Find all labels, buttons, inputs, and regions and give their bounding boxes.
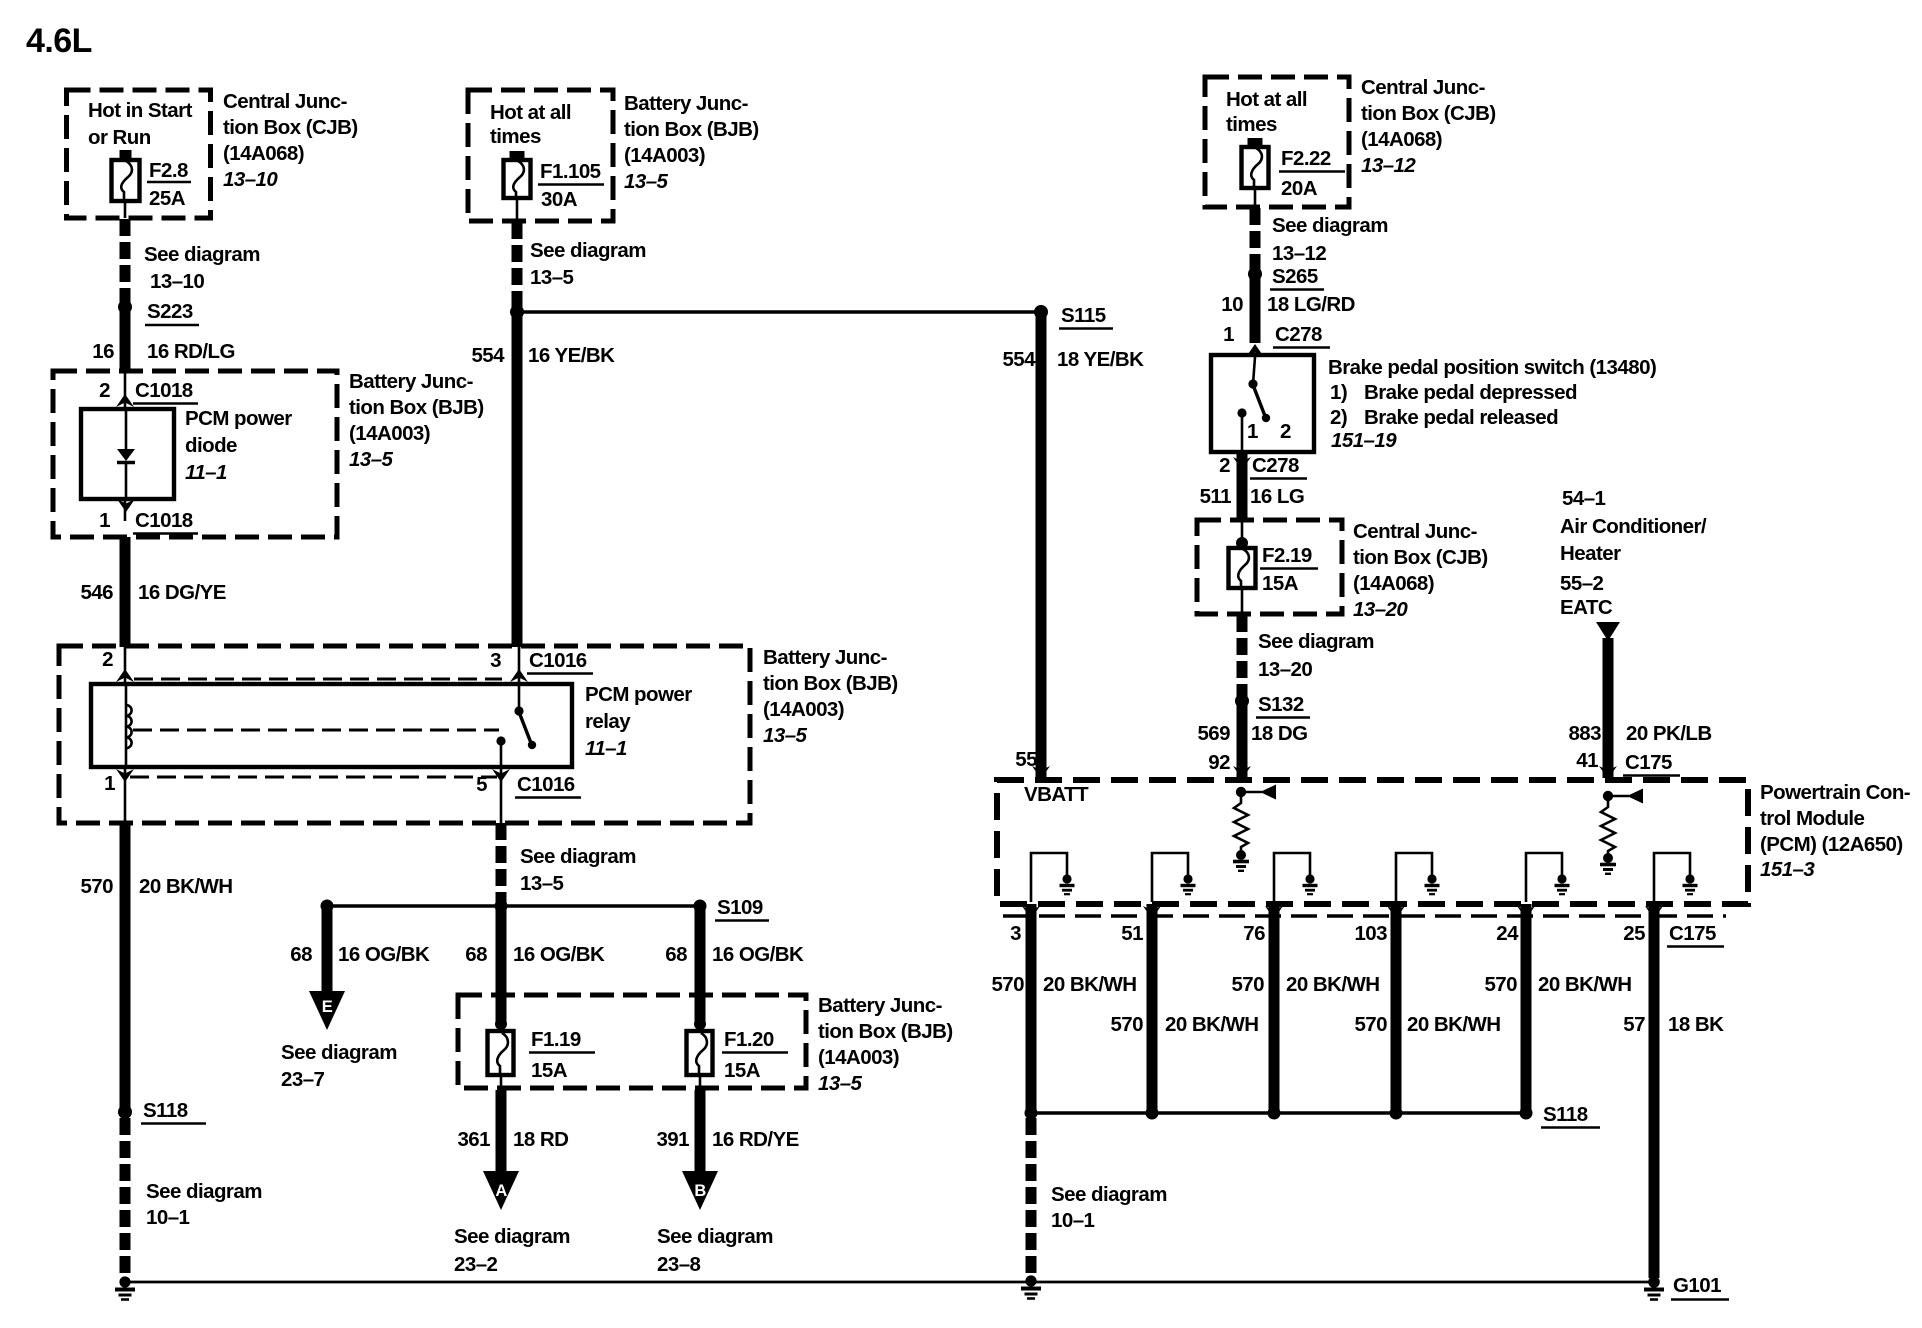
svg-text:15A: 15A [724,1059,761,1082]
svg-text:554: 554 [471,344,505,367]
pin 1 C278 [1223,323,1330,357]
wire 391 16 RD/YE [656,1090,798,1173]
internal load at pin 92 (arrow + resistor to ground) [1234,785,1276,852]
fuse F2.22 20A [1242,138,1346,207]
svg-text:S265: S265 [1272,265,1318,288]
svg-text:(14A068): (14A068) [223,142,304,165]
splice S118 (left) [118,1099,206,1124]
svg-text:2: 2 [99,379,110,402]
label Powertrain Control Module (PCM) [1760,781,1910,881]
svg-text:G101: G101 [1673,1274,1721,1297]
label Battery Junction Box (BJB) 13-5 [349,370,484,471]
BJB dashed box (Hot at all times) [468,90,613,221]
svg-text:(14A003): (14A003) [818,1046,899,1069]
pin 41 C175 [1576,749,1680,776]
svg-text:diode: diode [185,434,237,457]
internal ground (pin 41 load) [1600,853,1616,874]
ground bus wire [125,1281,1650,1284]
svg-text:24: 24 [1496,922,1519,945]
wire 570 20 BK/WH (pin 24) [1484,904,1631,1113]
svg-text:See diagram: See diagram [530,239,646,262]
svg-text:18 LG/RD: 18 LG/RD [1267,293,1355,316]
wire 68 16 OG/BK (left branch) [290,906,430,993]
wire 57 18 BK (pin 25) [1623,904,1724,1278]
BJB dashed box (PCM power diode) [53,371,337,537]
svg-text:20 BK/WH: 20 BK/WH [139,875,233,898]
svg-text:(14A003): (14A003) [763,698,844,721]
brake pedal position switch box [1211,355,1314,452]
svg-text:92: 92 [1208,751,1230,774]
svg-text:F2.8: F2.8 [149,159,188,182]
svg-text:23–8: 23–8 [657,1253,701,1276]
svg-text:B: B [694,1182,706,1200]
label Battery Junction Box (BJB) 13-5 (fuse box) [818,994,953,1095]
svg-text:511: 511 [1200,485,1232,508]
wire 554 16 YE/BK [471,312,615,647]
svg-text:Battery Junc-: Battery Junc- [624,92,748,115]
svg-text:20 BK/WH: 20 BK/WH [1165,1013,1259,1036]
svg-text:or Run: or Run [88,126,151,149]
PCM dashed box [997,780,1748,904]
svg-text:See diagram: See diagram [1258,630,1374,653]
internal ground jumper pin 103 [1396,853,1440,902]
ground G101 [1644,1274,1729,1300]
svg-text:C278: C278 [1275,323,1322,346]
svg-text:57: 57 [1623,1013,1645,1036]
svg-text:23–7: 23–7 [281,1068,325,1091]
switch contacts [1237,357,1291,452]
svg-text:tion Box (CJB): tion Box (CJB) [1353,546,1488,569]
svg-text:C278: C278 [1252,454,1299,477]
svg-text:F1.20: F1.20 [724,1028,774,1051]
svg-text:16 OG/BK: 16 OG/BK [513,943,605,966]
splice S118 bus [1025,1103,1601,1128]
pin 3 [1010,906,1040,945]
svg-text:76: 76 [1243,922,1265,945]
svg-text:S118: S118 [143,1099,188,1122]
svg-text:PCM power: PCM power [185,407,292,430]
svg-text:Brake pedal released: Brake pedal released [1364,406,1558,429]
internal ground jumper pin 76 [1274,853,1318,902]
svg-text:51: 51 [1121,922,1143,945]
splice S265 [1248,265,1324,290]
svg-text:11–1: 11–1 [585,737,627,760]
see diagram 10-1 note (left) [146,1180,262,1229]
wire (dashed) from F2.19 to S132 [1237,615,1248,697]
svg-text:361: 361 [457,1128,490,1151]
svg-text:25A: 25A [149,187,186,210]
wire 570 20 BK/WH (pin 51) [1110,904,1258,1113]
wire 16 RD/LG [92,307,235,372]
pin 2 C278 [1219,454,1307,479]
svg-text:Central Junc-: Central Junc- [1353,520,1477,543]
wire 883 20 PK/LB (from EATC to PCM pin 41) [1568,622,1711,779]
off-page arrow B [682,1171,718,1210]
svg-text:20 PK/LB: 20 PK/LB [1626,722,1712,745]
svg-text:570: 570 [1484,973,1517,996]
label Central Junction Box (CJB) 13-20 [1353,520,1488,621]
svg-text:tion Box (BJB): tion Box (BJB) [818,1020,953,1043]
svg-text:68: 68 [465,943,487,966]
label Battery Junction Box (BJB) 13-5 [624,92,759,193]
svg-text:Powertrain Con-: Powertrain Con- [1760,781,1910,804]
pin 76 [1243,906,1283,945]
svg-text:2: 2 [1219,454,1230,477]
label Central Junction Box (CJB) [223,90,358,191]
svg-text:(14A003): (14A003) [349,422,430,445]
svg-text:55–2: 55–2 [1560,572,1604,595]
svg-text:F1.19: F1.19 [531,1028,581,1051]
wire 569 18 DG (to PCM pin 92) [1197,701,1307,779]
svg-text:2: 2 [1280,420,1291,443]
svg-text:S132: S132 [1258,693,1304,716]
splice S223 [118,300,199,325]
svg-text:relay: relay [585,710,631,733]
wire 546 16 DG/YE [80,537,225,647]
svg-text:See diagram: See diagram [146,1180,262,1203]
wire (dashed) to ground G [120,1118,131,1277]
svg-text:391: 391 [656,1128,689,1151]
svg-text:25: 25 [1623,922,1645,945]
internal ground jumper pin 3 [1031,853,1075,902]
svg-text:16 YE/BK: 16 YE/BK [528,344,615,367]
relay actuation dashed line [133,729,499,732]
CJB dashed box (F2.19) [1197,520,1342,614]
svg-text:C175: C175 [1669,922,1716,945]
svg-text:3: 3 [490,649,501,672]
pin 3 C1016 [490,646,593,711]
pin 24 [1496,906,1535,945]
fuse F1.19 15A [488,1018,596,1090]
svg-text:tion Box (BJB): tion Box (BJB) [624,118,759,141]
svg-text:10–1: 10–1 [146,1206,190,1229]
internal ground jumper pin 24 [1526,853,1570,902]
svg-text:41: 41 [1576,749,1598,772]
connector C175 dashed line (bottom of PCM) [1003,914,1726,917]
svg-text:2): 2) [1330,406,1347,429]
svg-text:15A: 15A [1262,572,1299,595]
svg-text:13–5: 13–5 [520,872,564,895]
svg-text:2: 2 [102,648,113,671]
svg-text:See diagram: See diagram [1272,214,1388,237]
svg-text:Battery Junc-: Battery Junc- [763,646,887,669]
svg-text:103: 103 [1354,922,1387,945]
svg-text:570: 570 [991,973,1024,996]
svg-text:1: 1 [104,772,115,795]
PCM power diode D1 [81,407,292,499]
wire (dashed) from F1.105 down [512,222,523,308]
svg-text:13–20: 13–20 [1353,598,1408,621]
wire to S115 [517,310,1041,313]
svg-text:570: 570 [1110,1013,1143,1036]
svg-text:See diagram: See diagram [1051,1183,1167,1206]
svg-text:See diagram: See diagram [144,243,260,266]
pin 25 C175 [1623,906,1724,947]
splice S115 [1034,304,1113,329]
svg-text:F1.105: F1.105 [540,160,601,183]
svg-text:13–5: 13–5 [624,170,669,193]
off-page arrow A [483,1171,519,1210]
svg-text:20 BK/WH: 20 BK/WH [1286,973,1380,996]
see diagram 13-5 note [520,845,636,895]
svg-text:tion Box (BJB): tion Box (BJB) [349,396,484,419]
svg-text:1: 1 [99,509,110,532]
label Brake pedal position switch (13480) [1328,356,1656,452]
svg-text:68: 68 [665,943,687,966]
CJB dashed box (Hot at all times) [1205,77,1349,207]
wire 570 20 BK/WH (pin 76) [1231,904,1379,1113]
svg-text:570: 570 [1354,1013,1387,1036]
ground symbol (left) [115,1276,135,1299]
svg-text:13–5: 13–5 [818,1072,863,1095]
relay switch contacts [496,706,536,823]
svg-text:20A: 20A [1281,177,1318,200]
label 55-2 EATC [1560,572,1613,619]
svg-text:F2.22: F2.22 [1281,147,1331,170]
internal ground jumper pin 51 [1152,853,1196,902]
svg-text:16 OG/BK: 16 OG/BK [712,943,804,966]
wire 570 20 BK/WH (pin 103) [1354,904,1500,1113]
svg-text:times: times [1226,113,1277,136]
BJB dashed box (PCM power relay) [59,646,750,823]
svg-text:554: 554 [1002,348,1036,371]
svg-text:(14A068): (14A068) [1353,572,1434,595]
svg-text:13–5: 13–5 [349,448,394,471]
svg-text:10: 10 [1221,293,1243,316]
wire 511 16 LG [1200,453,1305,521]
svg-text:times: times [490,125,541,148]
svg-text:See diagram: See diagram [520,845,636,868]
svg-text:(PCM) (12A650): (PCM) (12A650) [1760,833,1903,856]
svg-text:16 DG/YE: 16 DG/YE [138,581,226,604]
svg-text:13–10: 13–10 [150,270,204,293]
label PCM power relay 11-1 [585,683,692,760]
relay coil [126,684,132,767]
svg-text:S115: S115 [1061,304,1106,327]
svg-text:1): 1) [1330,381,1347,404]
wire 68 16 OG/BK (middle branch) [465,906,605,1024]
svg-text:Central Junc-: Central Junc- [1361,76,1485,99]
pin 2 of relay [102,646,134,684]
pin 2 C1018 [99,371,198,409]
svg-text:(14A003): (14A003) [624,144,705,167]
svg-text:Brake pedal position switch (1: Brake pedal position switch (13480) [1328,356,1656,379]
svg-text:trol Module: trol Module [1760,807,1865,830]
svg-text:16 RD/YE: 16 RD/YE [712,1128,799,1151]
internal ground jumper pin 25 [1654,853,1698,902]
svg-text:16: 16 [92,340,114,363]
PCM power relay box [91,684,572,767]
svg-text:13–12: 13–12 [1272,242,1326,265]
see diagram 23-7 note [281,1041,397,1091]
fuse F1.20 15A [687,1018,789,1090]
svg-text:C1016: C1016 [529,649,587,672]
svg-text:18 YE/BK: 18 YE/BK [1057,348,1144,371]
svg-text:Central Junc-: Central Junc- [223,90,347,113]
svg-text:13–12: 13–12 [1361,154,1416,177]
svg-text:16 LG: 16 LG [1250,485,1304,508]
svg-text:Air Conditioner/: Air Conditioner/ [1560,515,1707,538]
svg-text:151–19: 151–19 [1331,429,1397,452]
pin 103 [1354,906,1405,945]
svg-text:E: E [322,998,333,1016]
svg-text:1: 1 [1247,420,1258,443]
svg-text:S109: S109 [717,896,763,919]
CJB dashed box (Hot in Start or Run) [67,90,211,218]
svg-text:151–3: 151–3 [1760,858,1815,881]
svg-text:569: 569 [1197,722,1230,745]
see diagram 23-2 note [454,1225,570,1276]
connector C1016 dashed line (bottom) [130,776,497,779]
svg-text:Battery Junc-: Battery Junc- [818,994,942,1017]
svg-text:18 BK: 18 BK [1668,1013,1724,1036]
wire (dashed) from relay pin 5 to S109 [496,823,507,903]
svg-text:11–1: 11–1 [185,461,227,484]
splice S109 bus [321,896,770,921]
svg-text:Hot in Start: Hot in Start [88,99,193,122]
svg-text:EATC: EATC [1560,596,1613,619]
see diagram 10-1 note (PCM) [1051,1183,1167,1232]
svg-text:18 DG: 18 DG [1251,722,1308,745]
svg-text:20 BK/WH: 20 BK/WH [1043,973,1137,996]
wire 361 18 RD [457,1090,568,1173]
svg-text:23–2: 23–2 [454,1253,498,1276]
svg-text:Hot at all: Hot at all [1226,88,1307,111]
svg-text:13–10: 13–10 [223,168,278,191]
wire (dashed) from F2.22 to S265 [1250,208,1261,270]
svg-text:15A: 15A [531,1059,568,1082]
svg-text:C1016: C1016 [517,773,575,796]
svg-text:C175: C175 [1625,751,1672,774]
internal ground (pin 92 load) [1233,850,1249,871]
svg-text:883: 883 [1568,722,1601,745]
ground symbol (middle) [1021,1275,1041,1298]
svg-text:(14A068): (14A068) [1361,128,1442,151]
see diagram 13-5 note [530,239,646,289]
pin 5 C1016 [476,769,581,798]
wire 570 20 BK/WH (left) [80,823,232,1112]
svg-text:3: 3 [1010,922,1021,945]
see diagram 13-10 note [144,243,260,293]
svg-text:570: 570 [80,875,113,898]
svg-text:1: 1 [1223,323,1234,346]
fuse F2.8 25A [112,150,192,218]
svg-text:13–5: 13–5 [530,266,574,289]
wire (dashed) from F2.8 down to S223 [120,219,131,304]
svg-text:13–5: 13–5 [763,724,808,747]
svg-text:VBATT: VBATT [1024,783,1089,806]
BJB dashed box (F1.19 / F1.20) [458,995,806,1088]
wire 68 16 OG/BK (right branch) [665,906,804,1024]
svg-text:See diagram: See diagram [657,1225,773,1248]
svg-text:30A: 30A [541,188,578,211]
junction node [510,305,524,319]
svg-text:18 RD: 18 RD [513,1128,568,1151]
fuse F1.105 30A [504,151,605,221]
svg-text:C1018: C1018 [135,379,193,402]
wire 554 18 YE/BK (to PCM pin 55) [1002,312,1144,779]
svg-text:C1018: C1018 [135,509,193,532]
off-page arrow E [309,991,345,1030]
label Central Junction Box (CJB) 13-12 [1361,76,1496,177]
svg-text:Hot at all: Hot at all [490,101,571,124]
svg-text:Heater: Heater [1560,542,1621,565]
connector C1016 dashed line (top) [134,678,502,681]
wire 10 18 LG/RD [1221,274,1355,343]
fuse F2.19 15A [1229,521,1319,614]
internal load at pin 41 (arrow + resistor to ground) [1601,789,1643,856]
svg-text:570: 570 [1231,973,1264,996]
pin 1 of relay [104,767,134,823]
label 54-1 Air Conditioner/Heater [1560,487,1707,565]
see diagram 13-20 note [1258,630,1374,681]
splice S132 [1235,693,1310,718]
see diagram 13-12 note [1272,214,1388,265]
wire (dashed) pin 3 to ground [1026,1118,1037,1275]
svg-text:tion Box (BJB): tion Box (BJB) [763,672,898,695]
svg-text:See diagram: See diagram [281,1041,397,1064]
svg-text:10–1: 10–1 [1051,1209,1095,1232]
svg-text:20 BK/WH: 20 BK/WH [1407,1013,1501,1036]
svg-text:A: A [495,1182,507,1200]
svg-text:Battery Junc-: Battery Junc- [349,370,473,393]
pin 51 [1121,906,1161,945]
wire 570 20 BK/WH (pin 3) [991,904,1136,1113]
svg-text:S223: S223 [147,300,193,323]
pin 1 C1018 [99,499,198,534]
svg-text:68: 68 [290,943,312,966]
svg-text:20 BK/WH: 20 BK/WH [1538,973,1632,996]
svg-text:4.6L: 4.6L [26,22,92,60]
svg-text:16 OG/BK: 16 OG/BK [338,943,430,966]
svg-text:Brake pedal depressed: Brake pedal depressed [1364,381,1577,404]
svg-text:See diagram: See diagram [454,1225,570,1248]
svg-text:tion Box (CJB): tion Box (CJB) [223,116,358,139]
label Battery Junction Box (BJB) 13-5 (relay box) [763,646,898,747]
svg-text:55: 55 [1015,748,1037,771]
see diagram 23-8 note [657,1225,773,1276]
svg-text:F2.19: F2.19 [1262,544,1312,567]
svg-text:16 RD/LG: 16 RD/LG [147,340,235,363]
svg-text:S118: S118 [1543,1103,1588,1126]
svg-text:tion Box (CJB): tion Box (CJB) [1361,102,1496,125]
svg-text:PCM power: PCM power [585,683,692,706]
svg-text:54–1: 54–1 [1562,487,1606,510]
svg-text:13–20: 13–20 [1258,658,1312,681]
svg-text:546: 546 [80,581,113,604]
